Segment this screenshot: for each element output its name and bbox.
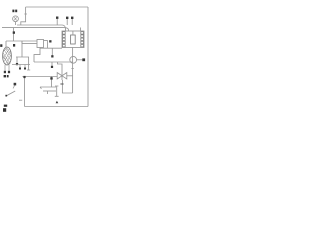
node dot on left drop: [13, 31, 15, 33]
relay K1 left pin squares: [63, 32, 66, 47]
generator G1 ellipse: [3, 47, 12, 65]
wire switch vertical: [24, 77, 26, 107]
label 4 bold mark left edge: [0, 44, 2, 47]
wire relay right top stub: [80, 28, 82, 32]
wire y48 to relay: [40, 47, 62, 49]
label bottom-left bold glyphs: [3, 105, 7, 112]
wire bus1: [17, 25, 66, 31]
node connector tick: [60, 83, 63, 85]
regulator box U2: [37, 40, 44, 48]
wire generator bottom leads: [5, 65, 9, 71]
node label dot mid: [51, 55, 53, 57]
node battery top dot: [50, 77, 52, 79]
connector tick left: [19, 99, 22, 101]
wire terminal stubs below bus4: [20, 65, 25, 68]
switch SW1 blade: [7, 91, 16, 96]
wire bus4 y64.5: [12, 64, 30, 66]
node terminal dot B2: [71, 17, 73, 19]
node terminal dot B: [66, 17, 68, 19]
label 30 bold marks top-left: [12, 10, 17, 13]
wire box top right corner down: [44, 41, 48, 49]
valve V1 bowtie right triangle: [62, 73, 67, 79]
wire bowtie stem bottom: [61, 76, 63, 80]
wire meter right lead: [77, 59, 83, 61]
wire Q1 to bus1: [15, 22, 17, 25]
wire stub below bus3: [51, 62, 53, 67]
node junction dot switch branch: [23, 76, 25, 78]
label under generator: [4, 75, 9, 77]
wire left drop from bus2: [13, 28, 15, 41]
battery B1 junction from y76 wire: [51, 76, 53, 87]
valve V1 bowtie left triangle: [57, 73, 62, 79]
wire switch label stem: [13, 85, 15, 88]
capacitor stub right: [27, 57, 30, 70]
connector tick on meter wire: [71, 68, 74, 70]
wire stem B2: [71, 19, 73, 25]
wire stem A: [56, 19, 58, 25]
wire relay to meter: [72, 48, 74, 64]
node generator terminal dots: [4, 71, 10, 73]
wire coil feed: [72, 31, 74, 35]
wire bottom U to bowtie stem: [62, 80, 72, 93]
wire stub down with label dot: [51, 48, 53, 55]
wire bus3 y62: [34, 61, 73, 63]
wire generator top: [5, 41, 7, 47]
battery B1 negative stem: [47, 91, 49, 94]
wire long y76 from switch branch: [22, 76, 57, 78]
relay K1 right pin squares: [81, 32, 84, 47]
connector arrow on bottom wire: [56, 101, 59, 104]
relay K1 outer box: [62, 31, 84, 48]
wire bowtie stem top: [58, 62, 63, 76]
transistor Q1: [13, 16, 19, 22]
wire y41 horizontal: [6, 40, 37, 42]
node terminal square right: [82, 58, 85, 61]
wire bowtie right to vertical: [67, 75, 73, 77]
meter M1 circle: [70, 56, 77, 63]
wire stem B: [66, 19, 68, 25]
wire box bottom: [34, 48, 40, 63]
node dot below bus3: [51, 66, 53, 68]
wire top border: [26, 6, 88, 8]
battery B1 top plate: [40, 87, 56, 89]
node dot on T: [16, 63, 18, 65]
wire bottom border: [25, 106, 89, 108]
node switch pivot dot: [14, 83, 17, 86]
wire mid T structure: [16, 41, 29, 64]
relay K1 coil: [71, 35, 76, 44]
wire right border: [87, 7, 89, 107]
generator G1 hatch: [3, 48, 11, 65]
wire from top border down to bus: [21, 7, 27, 25]
node terminal dot C: [49, 40, 51, 42]
wire bus2: [2, 28, 69, 31]
connector pair right of battery: [55, 86, 59, 96]
node switch blade end dot: [5, 95, 7, 97]
wire second feed to box: [22, 41, 37, 44]
label 2 bold mark: [13, 44, 15, 47]
battery B1 bottom plate: [43, 90, 56, 92]
node terminal dots below bus4: [19, 68, 26, 70]
node terminal dot A: [56, 17, 58, 19]
wire meter down long: [72, 63, 74, 93]
